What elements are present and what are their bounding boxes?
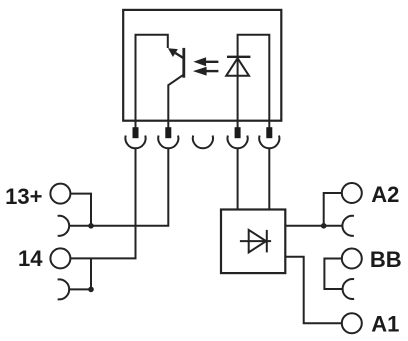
plug pin 1 (133, 127, 139, 138)
diode D2 triangle (249, 230, 266, 253)
wire bridge box to A2 junction and test socket A2 (285, 225, 342, 227)
svg-text:A2: A2 (371, 182, 399, 207)
socket pin 2 (158, 136, 178, 149)
junction 14 (88, 287, 94, 293)
wire terminal 13+ circle to junction (70, 194, 91, 226)
plug pin 5 (266, 127, 272, 138)
LED D1 triangle (226, 58, 249, 76)
svg-text:14: 14 (18, 246, 43, 271)
wire junction up to terminal A2 circle (324, 193, 342, 226)
test socket 13+ (58, 216, 70, 236)
light arrow lower (205, 70, 219, 72)
socket pin 3 (empty) (193, 136, 213, 149)
svg-text:BB: BB (370, 247, 402, 272)
optocoupler U1 outline (123, 10, 281, 121)
wire test socket 14 to junction (69, 258, 91, 289)
diode D2 anode wire (240, 240, 271, 242)
terminal A2 circle (342, 183, 362, 203)
plug pin 4 (235, 127, 241, 138)
light arrow upper (204, 61, 218, 63)
diode D2 cathode bar (266, 230, 268, 253)
wire LED D1 vertical (pin4 to inner-right frame) (238, 35, 270, 129)
terminal A1 circle (342, 313, 362, 333)
phototransistor Q1 emitter (168, 75, 183, 130)
phototransistor Q1 base bar (182, 48, 185, 78)
svg-text:13+: 13+ (5, 184, 42, 209)
phototransistor Q1 arrow (168, 48, 178, 57)
terminal 13+ circle (50, 184, 70, 204)
wire bridge box to terminal A1 (285, 257, 342, 323)
svg-text:A1: A1 (371, 312, 399, 337)
wire 13+ to pin 2 (69, 148, 168, 226)
socket pin 5 (259, 136, 279, 149)
test socket A2 (342, 216, 354, 236)
wire pin 4 to bridge box (237, 148, 239, 210)
plug pin 2 (165, 127, 171, 138)
wire 14 to pin 1 (70, 148, 135, 259)
socket pin 1 (125, 136, 145, 149)
wire pin1 to phototransistor top (inner-left frame) (136, 35, 168, 129)
terminal 14 circle (50, 248, 70, 268)
socket pin 4 (227, 136, 247, 149)
phototransistor Q1 collector diagonal (175, 53, 184, 58)
test socket 14 (58, 279, 70, 299)
terminal BB circle (342, 249, 362, 269)
wire terminal BB to test socket BB (324, 259, 342, 290)
wire pin 5 to bridge box (268, 148, 270, 210)
junction A2 (321, 223, 327, 229)
junction 13+ (88, 223, 94, 229)
test socket BB (343, 279, 355, 299)
LED D1 cathode bar (227, 56, 250, 58)
bridge rectifier box outline (221, 210, 285, 274)
